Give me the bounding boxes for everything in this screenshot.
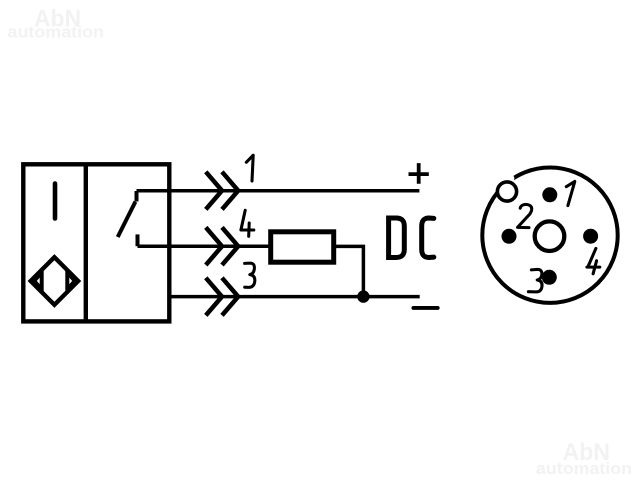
wire 1 (+) [137,189,420,193]
watermark bottom-right "AbN automation" [536,439,632,478]
diamond left triangle [34,272,42,289]
wire label 4 [241,210,254,236]
resistor R [271,232,334,262]
wire label 1 [246,155,253,181]
switch contact symbol [118,191,138,246]
DC label [389,218,434,258]
switch bottom stub [136,234,140,246]
sensor body outline [23,164,169,321]
switch top stub [135,191,139,202]
chevron pair wire 4 [206,227,238,265]
pin label 1 [566,181,575,205]
wire 4 (to resistor) [138,244,271,248]
pin 2 [502,229,517,244]
sensor active-face mark (vertical bar) [53,184,58,219]
pin 4 [583,229,598,244]
chevron pair wire 1 [206,172,238,210]
junction node [357,290,369,302]
connector keying notch clearance [506,175,514,183]
pin label 3 [528,269,542,292]
switch blade [118,202,136,237]
svg-text:automation: automation [536,459,632,478]
watermark top-left "AbN automation" [8,5,105,41]
pin label 2 [518,204,532,227]
svg-text:automation: automation [8,22,105,41]
diamond right triangle [67,272,75,289]
wire from resistor to junction [334,246,364,296]
sensor body divider [84,164,88,321]
plus sign [409,163,429,184]
connector keying notch [497,182,516,201]
connector center hole [535,221,565,251]
pin 3 [542,270,557,285]
wire label 3 [245,263,255,287]
inductive sensor diamond symbol [31,257,79,305]
pin 1 [542,187,557,202]
pin label 4 [587,248,600,273]
chevron pair wire 3 [206,278,238,316]
connector face circle [482,168,617,303]
wire 3 (-) [169,295,419,299]
minus sign [413,306,437,310]
